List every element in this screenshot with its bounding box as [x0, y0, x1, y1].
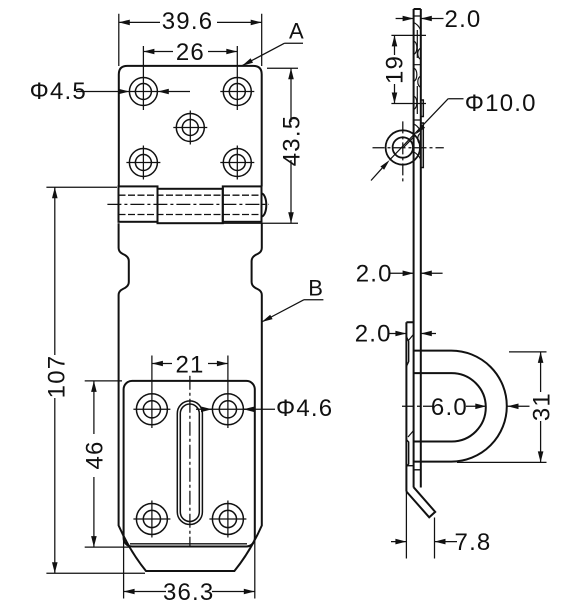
svg-text:Φ10.0: Φ10.0: [465, 90, 537, 117]
svg-text:2.0: 2.0: [356, 261, 393, 288]
svg-text:39.6: 39.6: [162, 8, 214, 35]
svg-text:2.0: 2.0: [355, 321, 392, 348]
svg-text:2.0: 2.0: [445, 6, 482, 33]
svg-text:26: 26: [176, 39, 205, 66]
svg-text:36.3: 36.3: [163, 579, 215, 603]
svg-text:Φ4.5: Φ4.5: [30, 78, 87, 105]
svg-text:B: B: [308, 276, 323, 301]
svg-text:46: 46: [82, 440, 109, 469]
svg-text:Φ4.6: Φ4.6: [276, 395, 333, 422]
svg-text:A: A: [289, 19, 304, 44]
svg-text:21: 21: [175, 352, 204, 379]
svg-text:7.8: 7.8: [455, 529, 492, 556]
svg-text:43.5: 43.5: [279, 115, 306, 167]
svg-text:107: 107: [44, 355, 71, 399]
svg-text:6.0: 6.0: [431, 394, 468, 421]
svg-text:31: 31: [529, 392, 556, 421]
svg-text:19: 19: [382, 55, 409, 84]
